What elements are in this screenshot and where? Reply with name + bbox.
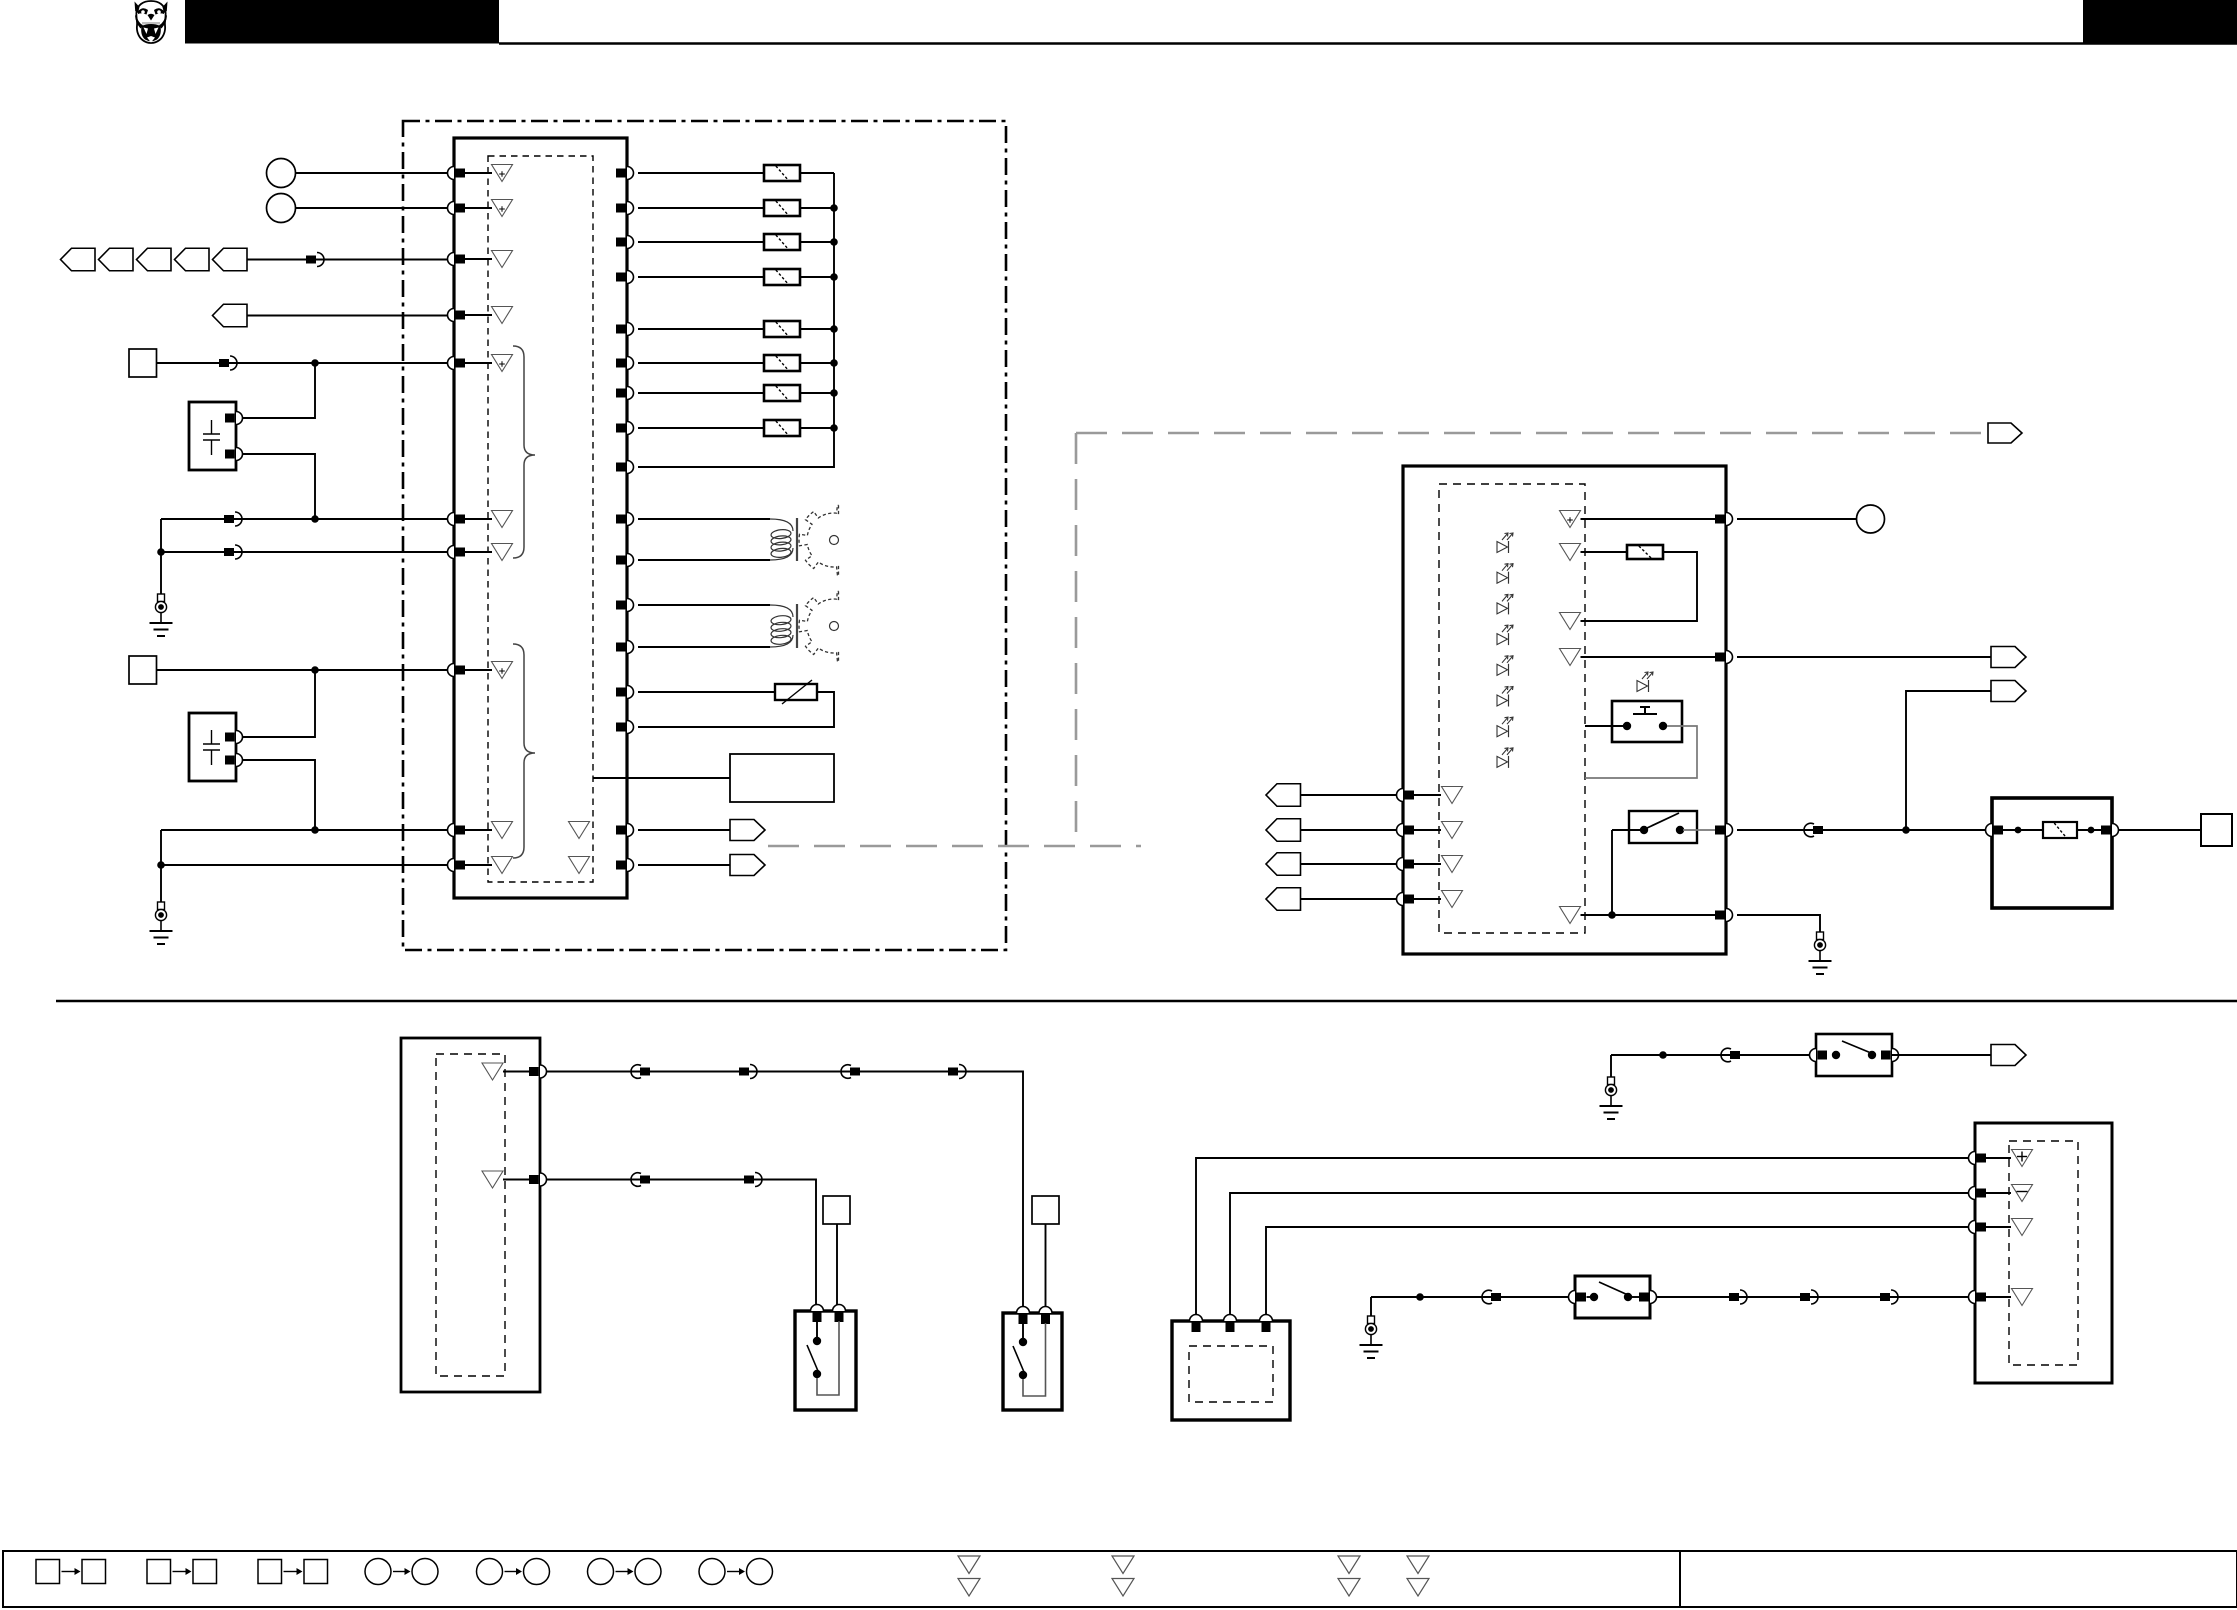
- ground G5: [1600, 1077, 1623, 1119]
- injector 7: [764, 385, 800, 401]
- wire circle A to ECM: [296, 172, 448, 174]
- harness dashed link upper: [1076, 432, 1988, 435]
- wire coil2 a: [638, 604, 770, 606]
- section divider line: [56, 1000, 2237, 1003]
- wire inertia switch to arrow: [1892, 1054, 1991, 1056]
- ground G2: [150, 902, 173, 944]
- relay fuse element: [2043, 822, 2077, 838]
- wire ECM pin7 to triangle L7: [465, 551, 492, 553]
- ECM right pin thermistor a: [616, 686, 634, 699]
- wire ground drop row 1297: [1370, 1297, 1372, 1316]
- cluster left triangle 4: [1442, 891, 1463, 908]
- ECM left pin 9: [448, 824, 465, 837]
- inline connector row 1297 b: [1729, 1290, 1747, 1304]
- injector 6: [764, 355, 800, 371]
- harness link arrow: [1988, 423, 2022, 443]
- wire triangle to right pin 657: [1581, 656, 1720, 658]
- right switch contact bottom: [1019, 1371, 1027, 1379]
- bottom-right module triangle 2: [2012, 1185, 2033, 1202]
- push button switch box: [1612, 701, 1682, 742]
- off-page arrow chain (5) row 259: [61, 248, 248, 271]
- right switch pin a: [1017, 1307, 1030, 1325]
- right switch blade: [1013, 1346, 1024, 1372]
- cluster right pin 2: [1715, 651, 1733, 664]
- junction row 1055: [1659, 1051, 1667, 1059]
- wire ECM pin3 to triangle L3: [465, 258, 492, 260]
- compressor pin 3: [1260, 1315, 1273, 1333]
- off-page arrow row 315: [213, 304, 248, 327]
- relay right pin: [2101, 824, 2118, 837]
- wire relay to terminal: [2119, 829, 2202, 831]
- ECM internal node triangle L5: [492, 355, 513, 372]
- left switch contact top: [813, 1337, 821, 1345]
- inertia switch contact a: [1832, 1051, 1840, 1059]
- wire ECM pin1 to triangle L1: [465, 172, 492, 174]
- wire ECM pin2 to triangle L2: [465, 207, 492, 209]
- cluster input arrow 2: [1266, 819, 1301, 842]
- ECM right pin thermistor b: [616, 721, 634, 734]
- ECM right pin injector 8: [616, 422, 634, 435]
- wire to off-page arrow B: [638, 864, 730, 866]
- wire injector 4 to bus: [800, 276, 834, 278]
- ECM internal node triangle L1: [492, 165, 513, 182]
- bottom-left module dashed box: [436, 1054, 505, 1376]
- wire CKP2 bottom pin to row 830: [243, 760, 315, 830]
- wire S1 to ECM row 363: [157, 362, 448, 364]
- wire arrow2 to cluster: [1301, 829, 1397, 831]
- wire S2 to ECM row 670: [157, 669, 448, 671]
- module right pin 1: [529, 1065, 547, 1078]
- junction shield row 865: [157, 861, 165, 869]
- warning LED 6: [1497, 687, 1513, 707]
- wire to injector 4: [638, 276, 764, 278]
- module triangle out2: [482, 1171, 503, 1188]
- wire coil1 a: [638, 518, 770, 520]
- ground G3: [1809, 932, 1832, 974]
- wire module pin1 to triangle: [1986, 1157, 2011, 1159]
- relay internal wire right: [2077, 829, 2101, 831]
- inline connector row 552: [224, 545, 242, 559]
- relay internal wire left: [2003, 829, 2043, 831]
- cluster input arrow 4: [1266, 888, 1301, 911]
- legend square pair 3: [258, 1560, 328, 1584]
- ECM right pin coil2 a: [616, 599, 634, 612]
- crank sensor 1 box: [189, 402, 236, 470]
- inline connector r1-1: [631, 1065, 650, 1079]
- right switch contact top: [1019, 1338, 1027, 1346]
- wire to off-page arrow A: [638, 829, 730, 831]
- bottom-right module box: [1975, 1123, 2112, 1383]
- wire coil2 b: [638, 646, 770, 648]
- ECM internal node triangle L8: [492, 662, 513, 679]
- legend triangle pair 3: [1338, 1556, 1360, 1596]
- module right pin 2: [529, 1173, 547, 1186]
- warning LED 2: [1497, 564, 1513, 584]
- wire cluster pin3 to triangle: [1414, 863, 1441, 865]
- wire thermistor b loop: [638, 692, 834, 727]
- pressure switch left pin: [1569, 1291, 1586, 1304]
- header rule: [499, 42, 2237, 44]
- wire into push switch: [1585, 725, 1623, 727]
- wire to cluster fuse: [1581, 551, 1628, 553]
- internal brace group 2: [513, 644, 535, 858]
- compressor pin 2: [1224, 1315, 1237, 1333]
- inertia switch contact b: [1868, 1051, 1876, 1059]
- wire junction down to CKP1 top pin: [240, 363, 315, 418]
- wire ECM pin6 to triangle L6: [465, 518, 492, 520]
- ECM right pin bus return: [616, 461, 634, 474]
- ECM internal node triangle L2: [492, 200, 513, 217]
- push switch contact a: [1623, 722, 1631, 730]
- junction shield row 552: [157, 548, 165, 556]
- right door switch box: [1003, 1313, 1062, 1410]
- wire to injector 6: [638, 362, 764, 364]
- push switch actuator: [1633, 707, 1657, 714]
- wire row 552 to ECM: [161, 551, 448, 553]
- wire dashed-box to module: [593, 777, 730, 779]
- shield drain to ground G1: [160, 519, 162, 594]
- legend bar divider: [1679, 1551, 1681, 1607]
- inline connector row 1297 d: [1880, 1290, 1898, 1304]
- wire cluster switch to right pin: [1683, 829, 1720, 831]
- pressure switch contact b: [1624, 1293, 1632, 1301]
- legend circle pair 4: [699, 1559, 773, 1585]
- wire circle B to ECM: [296, 207, 448, 209]
- relay contact dot b: [2088, 827, 2095, 834]
- ECM right pin injector 4: [616, 271, 634, 284]
- junction S2/vertical: [311, 666, 319, 674]
- unlabeled module box: [730, 754, 834, 802]
- wire module pin3 to triangle: [1986, 1226, 2011, 1228]
- legend circle pair 2: [477, 1559, 550, 1585]
- ground G4: [1360, 1316, 1383, 1358]
- bottom-right module triangle 4: [2012, 1289, 2033, 1306]
- wire ECM pin4 to triangle L4: [465, 314, 492, 316]
- wire cluster pin2 to triangle: [1414, 829, 1441, 831]
- A/C relay box: [1992, 798, 2112, 908]
- bottom-right module pin 3: [1969, 1221, 1987, 1234]
- junction S1/vertical: [311, 359, 319, 367]
- inline connector r1-3: [841, 1065, 860, 1079]
- inertia switch box: [1816, 1034, 1892, 1076]
- internal brace group 1: [513, 346, 535, 558]
- ECM left pin 8: [448, 664, 466, 677]
- wire injector 7 to bus: [800, 392, 834, 394]
- inline connector row 1297 a: [1482, 1290, 1501, 1304]
- crank sensor 1 pin a: [225, 412, 243, 425]
- inertia switch right pin: [1881, 1049, 1899, 1062]
- crank sensor 2 box: [189, 713, 236, 781]
- cluster node triangle ground: [1560, 907, 1581, 924]
- wire to injector 5: [638, 328, 764, 330]
- wire ground drop row 1055: [1610, 1055, 1612, 1077]
- wire injector 5 to bus: [800, 328, 834, 330]
- right switch pin b: [1039, 1307, 1052, 1325]
- thermistor body: [775, 680, 817, 704]
- wire switch to module row 1297: [1657, 1296, 1969, 1298]
- left switch pin b: [833, 1305, 846, 1322]
- cluster left triangle 1: [1442, 787, 1463, 804]
- wire row 519 to ECM: [161, 518, 448, 520]
- wire injector 6 to bus: [800, 362, 834, 364]
- wire cluster ground row: [1581, 914, 1720, 916]
- shield drain to ground G2: [160, 830, 162, 902]
- wire triangle to right pin 519: [1581, 518, 1720, 520]
- wire arrow row 691 feed: [1906, 691, 1991, 830]
- ECM left pin 4: [448, 309, 466, 322]
- bus junction row 393: [830, 389, 838, 397]
- inline connector row 519: [224, 512, 242, 526]
- ECM internal node triangle L7: [492, 544, 513, 561]
- wire cluster pin1 to triangle: [1414, 794, 1441, 796]
- warning LED 1: [1497, 533, 1513, 553]
- reluctor wheel 2: [799, 591, 861, 661]
- wire row 865 to ECM: [161, 864, 448, 866]
- inline connector row 830: [1804, 823, 1823, 837]
- ECM right pin injector 6: [616, 357, 634, 370]
- wire feed to right door switch: [547, 1072, 1024, 1316]
- wire arrow4 to cluster: [1301, 898, 1397, 900]
- wire compressor 1 to module: [1196, 1158, 1969, 1315]
- cluster left pin 4: [1397, 893, 1415, 906]
- legend circle pair 1: [365, 1559, 438, 1585]
- wire arrow3 to cluster: [1301, 863, 1397, 865]
- warning LED 5: [1497, 656, 1513, 676]
- harness dashed link vertical: [1075, 433, 1078, 846]
- cluster left triangle 3: [1442, 856, 1463, 873]
- compressor dashed box: [1189, 1346, 1273, 1402]
- legend triangle pair 1: [958, 1556, 980, 1596]
- wire feed to left door switch: [547, 1180, 817, 1314]
- junction row 830: [311, 826, 319, 834]
- ECM internal node triangle L6: [492, 511, 513, 528]
- left switch contact bottom: [813, 1370, 821, 1378]
- push switch contact b: [1659, 722, 1667, 730]
- ECM internal node triangle L10: [492, 857, 513, 874]
- crank sensor 2 pin a: [225, 731, 243, 744]
- wire junction down to CKP2 top pin: [240, 670, 315, 737]
- wire to injector 2: [638, 207, 764, 209]
- ECM left pin 7: [448, 546, 466, 559]
- pressure switch right pin: [1639, 1291, 1657, 1304]
- title bar left: [185, 0, 499, 44]
- inline connector row 363: [219, 356, 237, 370]
- bottom-right module triangle 3: [2012, 1219, 2033, 1236]
- cluster input arrow 3: [1266, 853, 1301, 876]
- wire injector 1 to bus: [800, 172, 834, 174]
- junction row 1297: [1416, 1293, 1424, 1301]
- cluster input arrow 1: [1266, 784, 1301, 807]
- bus junction row 277: [830, 273, 838, 281]
- injector 5: [764, 321, 800, 337]
- ECM left pin 3: [448, 253, 466, 266]
- legend triangle pair 4: [1407, 1556, 1429, 1596]
- off-page arrow B: [730, 855, 765, 876]
- wire triangle2 to pin2: [503, 1179, 529, 1181]
- left door switch box: [795, 1311, 856, 1410]
- warning LED 3: [1497, 594, 1513, 614]
- ECM left pin 10: [448, 859, 466, 872]
- jaguar growler logo: [135, 1, 168, 43]
- legend triangle pair 2: [1112, 1556, 1134, 1596]
- ECM right pin injector 1: [616, 167, 634, 180]
- illumination LED above push switch: [1637, 672, 1653, 692]
- wire cluster pin4 to triangle: [1414, 898, 1441, 900]
- sensor terminal square S1: [129, 349, 157, 377]
- ECM outer box: [454, 138, 627, 898]
- pressure switch internal wires: [1587, 1296, 1591, 1298]
- cluster right pin 4: [1715, 909, 1733, 922]
- junction row 519: [311, 515, 319, 523]
- ECM internal node triangle L9: [492, 822, 513, 839]
- ECM harness dash-dot boundary: [403, 121, 1006, 950]
- ECM inner dashed box: [488, 156, 593, 882]
- warning LED 4: [1497, 625, 1513, 645]
- module triangle out1: [482, 1063, 503, 1080]
- legend circle pair 3: [588, 1559, 662, 1585]
- cluster left triangle 2: [1442, 822, 1463, 839]
- wire to injector 1: [638, 172, 764, 174]
- wire injector 8 to bus: [800, 427, 834, 429]
- wire ECM pin9 to triangle L9: [465, 829, 492, 831]
- inline connector row 1297 c: [1800, 1290, 1818, 1304]
- ECM left pin 6: [448, 513, 466, 526]
- injector 2: [764, 200, 800, 216]
- ground G1: [150, 594, 173, 636]
- wire arrow1 to cluster: [1301, 794, 1397, 796]
- wire coil1 b: [638, 559, 770, 561]
- left switch internal wires: [816, 1321, 818, 1337]
- bus junction row 208: [830, 204, 838, 212]
- VVT solenoid coil 1: [770, 518, 797, 561]
- inline connector r1-2: [739, 1065, 757, 1079]
- wire module pin4 to triangle: [1986, 1296, 2011, 1298]
- compressor box: [1172, 1321, 1290, 1420]
- bottom-right module pin 2: [1969, 1187, 1987, 1200]
- ignition coil feed circle A: [267, 159, 296, 188]
- wire CKP1 bottom pin to row 519: [243, 454, 315, 519]
- wire pin519 to gauge circle: [1737, 518, 1856, 520]
- wire injector 2 to bus: [800, 207, 834, 209]
- wire right square to switch: [1045, 1224, 1047, 1315]
- wire pin657 to arrow: [1737, 656, 1991, 658]
- compressor pin 1: [1190, 1315, 1203, 1333]
- inline connector row 1055: [1721, 1048, 1740, 1062]
- left switch pin a: [811, 1305, 824, 1322]
- cluster node triangle supply: [1560, 511, 1581, 528]
- inline connector r2-2: [744, 1173, 762, 1187]
- cluster switch contact b: [1676, 826, 1684, 834]
- wire compressor 3 to module: [1266, 1227, 1969, 1315]
- ECM right pin out B: [616, 859, 634, 872]
- cluster right pin 1: [1715, 513, 1733, 526]
- wire pin915 to ground: [1737, 915, 1820, 932]
- off-page arrow row 691: [1991, 681, 2026, 702]
- bottom-left module box: [401, 1038, 540, 1392]
- sensor terminal square S2: [129, 656, 157, 684]
- inertia switch blade: [1842, 1041, 1871, 1053]
- cluster switch blade: [1647, 813, 1679, 828]
- warning LED 7: [1497, 717, 1513, 737]
- ignition coil feed circle B: [267, 194, 296, 223]
- wire to injector 7: [638, 392, 764, 394]
- injector 1: [764, 165, 800, 181]
- bottom-right module dashed box: [2009, 1141, 2078, 1365]
- warning LED 8: [1497, 748, 1513, 768]
- legend square pair 2: [147, 1560, 217, 1584]
- bus junction row 329: [830, 325, 838, 333]
- wire ECM pin8 to triangle L8: [465, 669, 492, 671]
- ECM right pin coil2 b: [616, 641, 634, 654]
- cluster outer box: [1403, 466, 1726, 954]
- injector 3: [764, 234, 800, 250]
- ECM right inner triangle pair row 830: [569, 822, 590, 839]
- ECM right pin out A: [616, 824, 633, 837]
- wire cluster switch drop: [1611, 830, 1613, 915]
- ECM right pin coil1 b: [616, 554, 634, 567]
- wire pressure switch row: [1371, 1296, 1575, 1298]
- left switch blade: [807, 1345, 818, 1371]
- ECM right pin coil1 a: [616, 513, 634, 526]
- cluster left pin 2: [1397, 824, 1414, 837]
- right switch internal wires: [1022, 1323, 1024, 1338]
- wire module pin2 to triangle: [1986, 1192, 2011, 1194]
- junction row 830: [1902, 826, 1910, 834]
- ECM internal node triangle L3: [492, 251, 513, 268]
- reluctor wheel 1: [799, 505, 861, 575]
- crank sensor 2 pin b: [225, 754, 243, 767]
- cluster left pin 3: [1397, 858, 1415, 871]
- wire to injector 3: [638, 241, 764, 243]
- inline connector r2-1: [631, 1173, 650, 1187]
- cluster right pin 3: [1715, 824, 1732, 837]
- injector 8: [764, 420, 800, 436]
- ECM left pin 1: [448, 167, 466, 180]
- wire ECM pin5 to triangle L5: [465, 362, 492, 364]
- wire thermistor a: [638, 691, 775, 693]
- bottom-right module pin 1: [1969, 1152, 1987, 1165]
- ECM right pin injector 5: [616, 323, 634, 336]
- cluster switch box: [1629, 811, 1697, 843]
- ECM left pin 5: [448, 357, 466, 370]
- wire ECM pin10 to triangle L10: [465, 864, 492, 866]
- cluster switch contact a: [1640, 826, 1648, 834]
- bus junction row 242: [830, 238, 838, 246]
- ECM right pin injector 2: [616, 202, 633, 215]
- relay left pin: [1986, 824, 2003, 837]
- off-page arrow row 1055: [1991, 1045, 2026, 1066]
- inline connector row 259: [306, 253, 324, 267]
- inline connector r1-4: [948, 1065, 966, 1079]
- title bar right: [2083, 0, 2237, 44]
- wire row 830 to ECM: [161, 829, 448, 831]
- gauge circle: [1857, 505, 1885, 533]
- cluster node triangle fuse-in: [1560, 544, 1581, 561]
- right switch connector square: [1032, 1196, 1059, 1224]
- ECM left pin 2: [448, 202, 465, 215]
- inertia switch left pin: [1810, 1049, 1828, 1062]
- VVT solenoid coil 2: [770, 604, 797, 648]
- bottom-right module triangle 1: [2012, 1150, 2033, 1167]
- cluster left pin 1: [1397, 789, 1415, 802]
- left switch connector square: [823, 1196, 850, 1224]
- pressure switch box: [1575, 1276, 1650, 1318]
- cluster node triangle fuse-return: [1560, 613, 1581, 630]
- legend bar frame: [3, 1551, 2237, 1607]
- pressure switch contact a: [1590, 1293, 1598, 1301]
- off-page arrow row 657: [1991, 647, 2026, 668]
- wire pin830 to relay: [1737, 829, 1989, 831]
